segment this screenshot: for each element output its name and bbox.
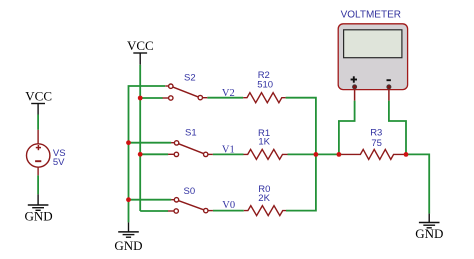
svg-text:510: 510: [257, 79, 273, 90]
svg-text:R3: R3: [370, 127, 382, 138]
svg-text:VCC: VCC: [25, 88, 52, 103]
svg-text:S1: S1: [185, 128, 197, 139]
svg-text:75: 75: [371, 138, 382, 149]
svg-text:V2: V2: [222, 88, 235, 99]
svg-text:1K: 1K: [258, 137, 270, 148]
svg-text:2K: 2K: [258, 193, 270, 204]
svg-text:5V: 5V: [53, 157, 65, 168]
svg-text:VCC: VCC: [127, 38, 154, 53]
svg-text:GND: GND: [415, 226, 443, 241]
svg-text:V0: V0: [222, 200, 235, 211]
svg-text:VOLTMETER: VOLTMETER: [341, 9, 401, 20]
svg-text:S0: S0: [184, 186, 196, 197]
svg-text:GND: GND: [25, 209, 53, 224]
svg-text:GND: GND: [114, 238, 142, 253]
svg-text:S2: S2: [184, 73, 196, 84]
svg-text:V1: V1: [222, 144, 235, 155]
